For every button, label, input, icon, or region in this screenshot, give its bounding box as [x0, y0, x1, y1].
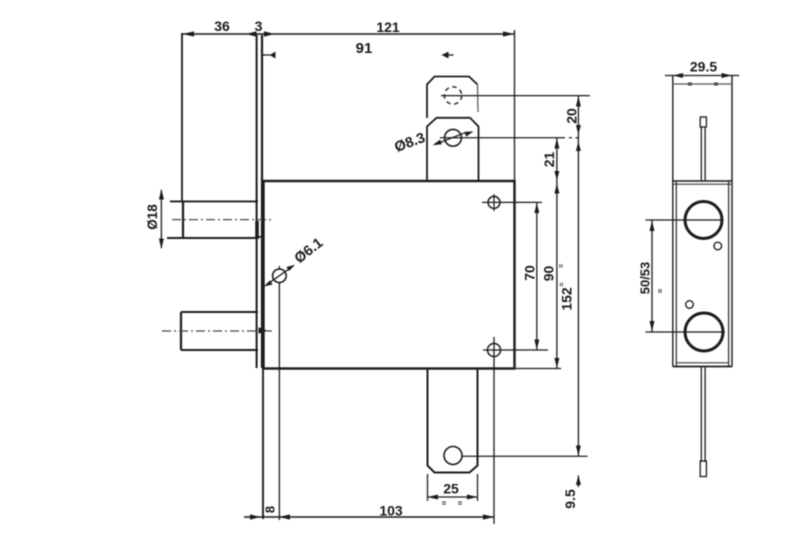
junction mark on faceplate [259, 327, 268, 333]
side big hole upper [685, 202, 722, 239]
svg-text:25: 25 [443, 481, 459, 497]
arrow left end of 36 [183, 31, 195, 36]
dimension 9.5 arrow [577, 476, 579, 488]
body hole upper [488, 196, 500, 208]
hole Ø8.3 in tab 2 [445, 129, 462, 146]
top pin cap [700, 117, 706, 127]
dimension 29.5 [665, 75, 739, 77]
dimension line 20/152 [577, 96, 579, 457]
body hole upper vertical tick [493, 194, 495, 211]
arrow at faceplate left (36 right) [246, 31, 257, 36]
leader from Ø8.3 hole [440, 137, 565, 139]
arrow tip at 279 [279, 514, 290, 519]
dimension Ø18 line [160, 190, 162, 248]
side big hole lower [685, 313, 723, 351]
body bottom edge extension right [515, 368, 562, 370]
top dimension line 36/3/121 [182, 33, 516, 35]
extension line through lower hole down [493, 337, 495, 524]
svg-text:=: = [559, 282, 566, 286]
upper tab 1 right edge [477, 85, 480, 113]
leader from upper body hole [482, 201, 542, 203]
side plate right edge [731, 76, 733, 367]
bottom dimension line 8/103 [244, 516, 494, 518]
outer plate left edge [181, 33, 183, 201]
side small hole upper [714, 242, 722, 250]
dimension 91 left arrow [263, 54, 271, 56]
faceplate left line [256, 35, 258, 368]
faceplate lower line [262, 368, 264, 519]
top pin [700, 127, 702, 181]
cylinder 2 centerline [162, 330, 272, 332]
svg-text:103: 103 [379, 503, 403, 519]
dimension 25 [428, 496, 478, 498]
svg-text:90: 90 [541, 266, 557, 282]
body hole lower [488, 344, 501, 357]
side box inner edges [675, 181, 677, 367]
svg-text:21: 21 [541, 152, 557, 168]
Ø6.1 extension line down [278, 283, 280, 520]
cylinder 2 (latch bolt) top edge [181, 311, 258, 313]
Ø18 top arrow [159, 189, 164, 200]
svg-text:50/53: 50/53 [638, 262, 653, 295]
hole in lower tab [444, 447, 462, 465]
svg-text:=: = [458, 499, 463, 508]
svg-text:91: 91 [356, 40, 373, 57]
upper tab 1 outline [427, 77, 478, 119]
upper tab 2 outline [427, 118, 479, 181]
svg-text:3: 3 [255, 18, 263, 34]
svg-text:Ø8.3: Ø8.3 [392, 130, 427, 156]
cylinder 1 left edge [182, 201, 184, 238]
arrow tip at 494 [483, 514, 494, 519]
dimension line 21/90 [556, 138, 558, 369]
cylinder 1 centerline [172, 219, 272, 221]
svg-text:152: 152 [559, 287, 575, 311]
arrow at faceplate right (121 left) [264, 31, 275, 36]
cylinder 2 bottom edge [181, 349, 258, 351]
Ø6.1 callout line [267, 267, 293, 285]
svg-text:=: = [442, 499, 447, 508]
svg-text:Ø18: Ø18 [145, 204, 160, 230]
leader from lower tab hole [462, 455, 588, 457]
Ø6.1 arrowhead lower-left [264, 281, 273, 287]
faceplate notch [255, 221, 259, 238]
Ø6.1 center tick [278, 266, 280, 270]
svg-text:121: 121 [376, 19, 400, 35]
Ø18 bottom arrow [159, 239, 164, 250]
faceplate right line [261, 35, 263, 368]
svg-text:Ø6.1: Ø6.1 [292, 235, 327, 267]
side plate left edge [672, 76, 674, 367]
svg-text:29.5: 29.5 [690, 59, 717, 75]
dimension 91 right arrow [442, 52, 449, 59]
dimension 50/53 [651, 220, 653, 332]
svg-text:20: 20 [564, 108, 580, 124]
bottom pin foot [700, 461, 706, 477]
hole Ø6.1 on body [273, 269, 287, 283]
Ø8.3 callout arrowhead lower-left [433, 140, 442, 146]
leader from lower body hole [483, 349, 548, 351]
arrow right end of 121 [503, 31, 514, 36]
lower tab extension lines [427, 474, 429, 501]
bottom pin [700, 367, 702, 463]
svg-text:36: 36 [214, 18, 230, 34]
side small hole lower [686, 301, 694, 309]
side box bottom edge [673, 366, 732, 368]
svg-text:=: = [656, 288, 665, 293]
leader through upper side hole [646, 219, 724, 221]
leader through lower side hole [646, 331, 726, 333]
dimension line 70 [536, 202, 538, 350]
Ø6.1 arrowhead upper-right [286, 265, 295, 271]
svg-text:70: 70 [522, 265, 538, 281]
body right edge extension to top dim [514, 30, 516, 181]
hole (dashed) in tab 1 [444, 87, 461, 104]
Ø8.3 callout arrowhead upper-right [464, 131, 473, 136]
cylinder 1 bottom edge [167, 237, 259, 239]
svg-text:9.5: 9.5 [562, 489, 578, 509]
lower tab outline [428, 369, 478, 473]
cylinder 1 (Ø18 bolt) top edge [170, 200, 258, 202]
svg-text:=: = [559, 264, 566, 268]
side box top edge [673, 180, 732, 182]
leader from tab1 hole [441, 95, 590, 97]
svg-text:8: 8 [263, 506, 278, 513]
Ø8.3 callout line [438, 132, 467, 143]
cylinder 2 left edge [180, 312, 182, 350]
lock body outline [264, 181, 515, 369]
arrow tip at 263 [250, 514, 261, 519]
side plate top edge [673, 83, 732, 85]
